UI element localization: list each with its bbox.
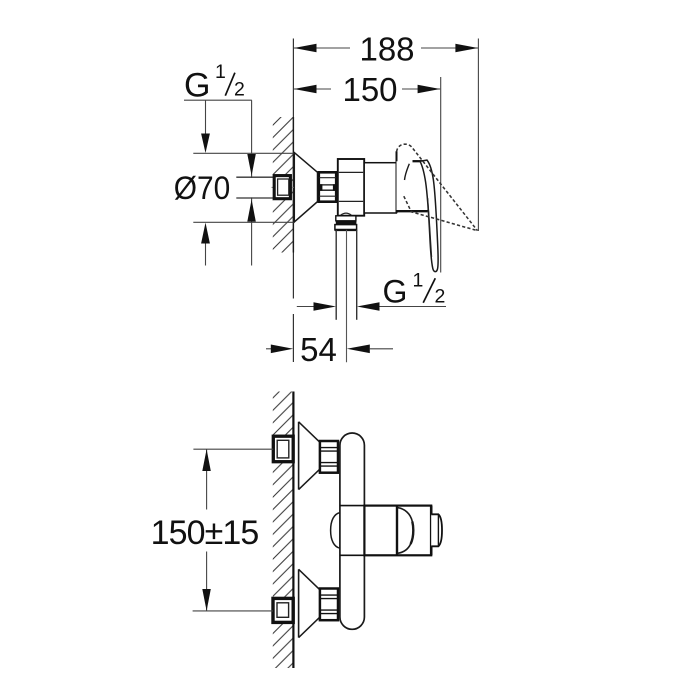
dimension 150±15 — [151, 449, 274, 611]
top wall square nut (bottom view) — [273, 436, 293, 462]
wall face line (top view) — [292, 39, 294, 299]
svg-text:2: 2 — [435, 286, 446, 308]
wall hatch band (bottom view) — [273, 392, 294, 669]
body capsule (bottom view) — [340, 433, 365, 629]
lever blade (solid) — [420, 160, 438, 272]
bottom union nut (bottom view) — [320, 589, 338, 621]
hose nipple pipe — [336, 230, 357, 362]
lever knob (bottom view) — [431, 514, 442, 546]
leader G1/2 middle — [297, 302, 446, 311]
label G 1/2 (middle) — [383, 269, 446, 309]
wall socket square nut — [274, 176, 290, 199]
bottom escutcheon cone (bottom view) — [299, 569, 320, 637]
dimension Ø70 extension lines — [193, 152, 294, 154]
leader line below (to bottom ext line) — [205, 243, 207, 266]
dashed lever (alternate position) D1 with knob arc — [397, 144, 478, 231]
svg-text:54: 54 — [300, 331, 337, 368]
svg-text:2: 2 — [234, 79, 245, 101]
dimension 54 — [266, 331, 393, 368]
escutcheon cone (top view) — [294, 153, 317, 222]
cap (top view) — [397, 161, 432, 211]
hose outlet bump (left of capsule) — [331, 513, 340, 549]
cartridge block (bottom view) — [340, 506, 431, 556]
wall hatch band (top view) — [273, 117, 293, 253]
cap dome (bottom view) — [397, 508, 413, 554]
dimension 188 — [294, 30, 479, 231]
valve body rect1 — [338, 159, 364, 216]
top union nut (bottom view) — [320, 441, 338, 473]
svg-text:1: 1 — [413, 269, 424, 291]
outlet union below body — [335, 216, 357, 230]
leader G1/2 to flange top line — [205, 100, 207, 134]
vertical leader at x=251.6 with arrows to pipe — [251, 100, 253, 265]
supply pipe (behind wall) — [236, 177, 274, 198]
top escutcheon cone (bottom view) — [299, 422, 320, 490]
collar line — [396, 506, 398, 556]
bottom wall square nut (bottom view) — [273, 598, 293, 622]
svg-text:Ø70: Ø70 — [174, 170, 231, 206]
svg-text:150: 150 — [342, 71, 397, 108]
lever blade inner ridge — [428, 198, 432, 257]
wall face line (bottom view) — [292, 392, 294, 669]
label G 1/2 (top left) — [184, 61, 252, 104]
svg-text:1: 1 — [215, 61, 226, 83]
pipe centerline dashes — [272, 186, 297, 188]
svg-text:150±15: 150±15 — [151, 514, 259, 552]
block right edge — [430, 506, 433, 556]
svg-text:G: G — [383, 274, 408, 310]
lever front tip edge (solid) — [405, 164, 410, 180]
svg-text:G: G — [184, 66, 210, 104]
dashed lever lower edge D2 — [404, 196, 478, 231]
svg-text:188: 188 — [359, 30, 414, 67]
dimension 150 — [294, 71, 441, 273]
valve body rect2 — [364, 163, 396, 213]
union nut (top view) — [319, 172, 336, 201]
